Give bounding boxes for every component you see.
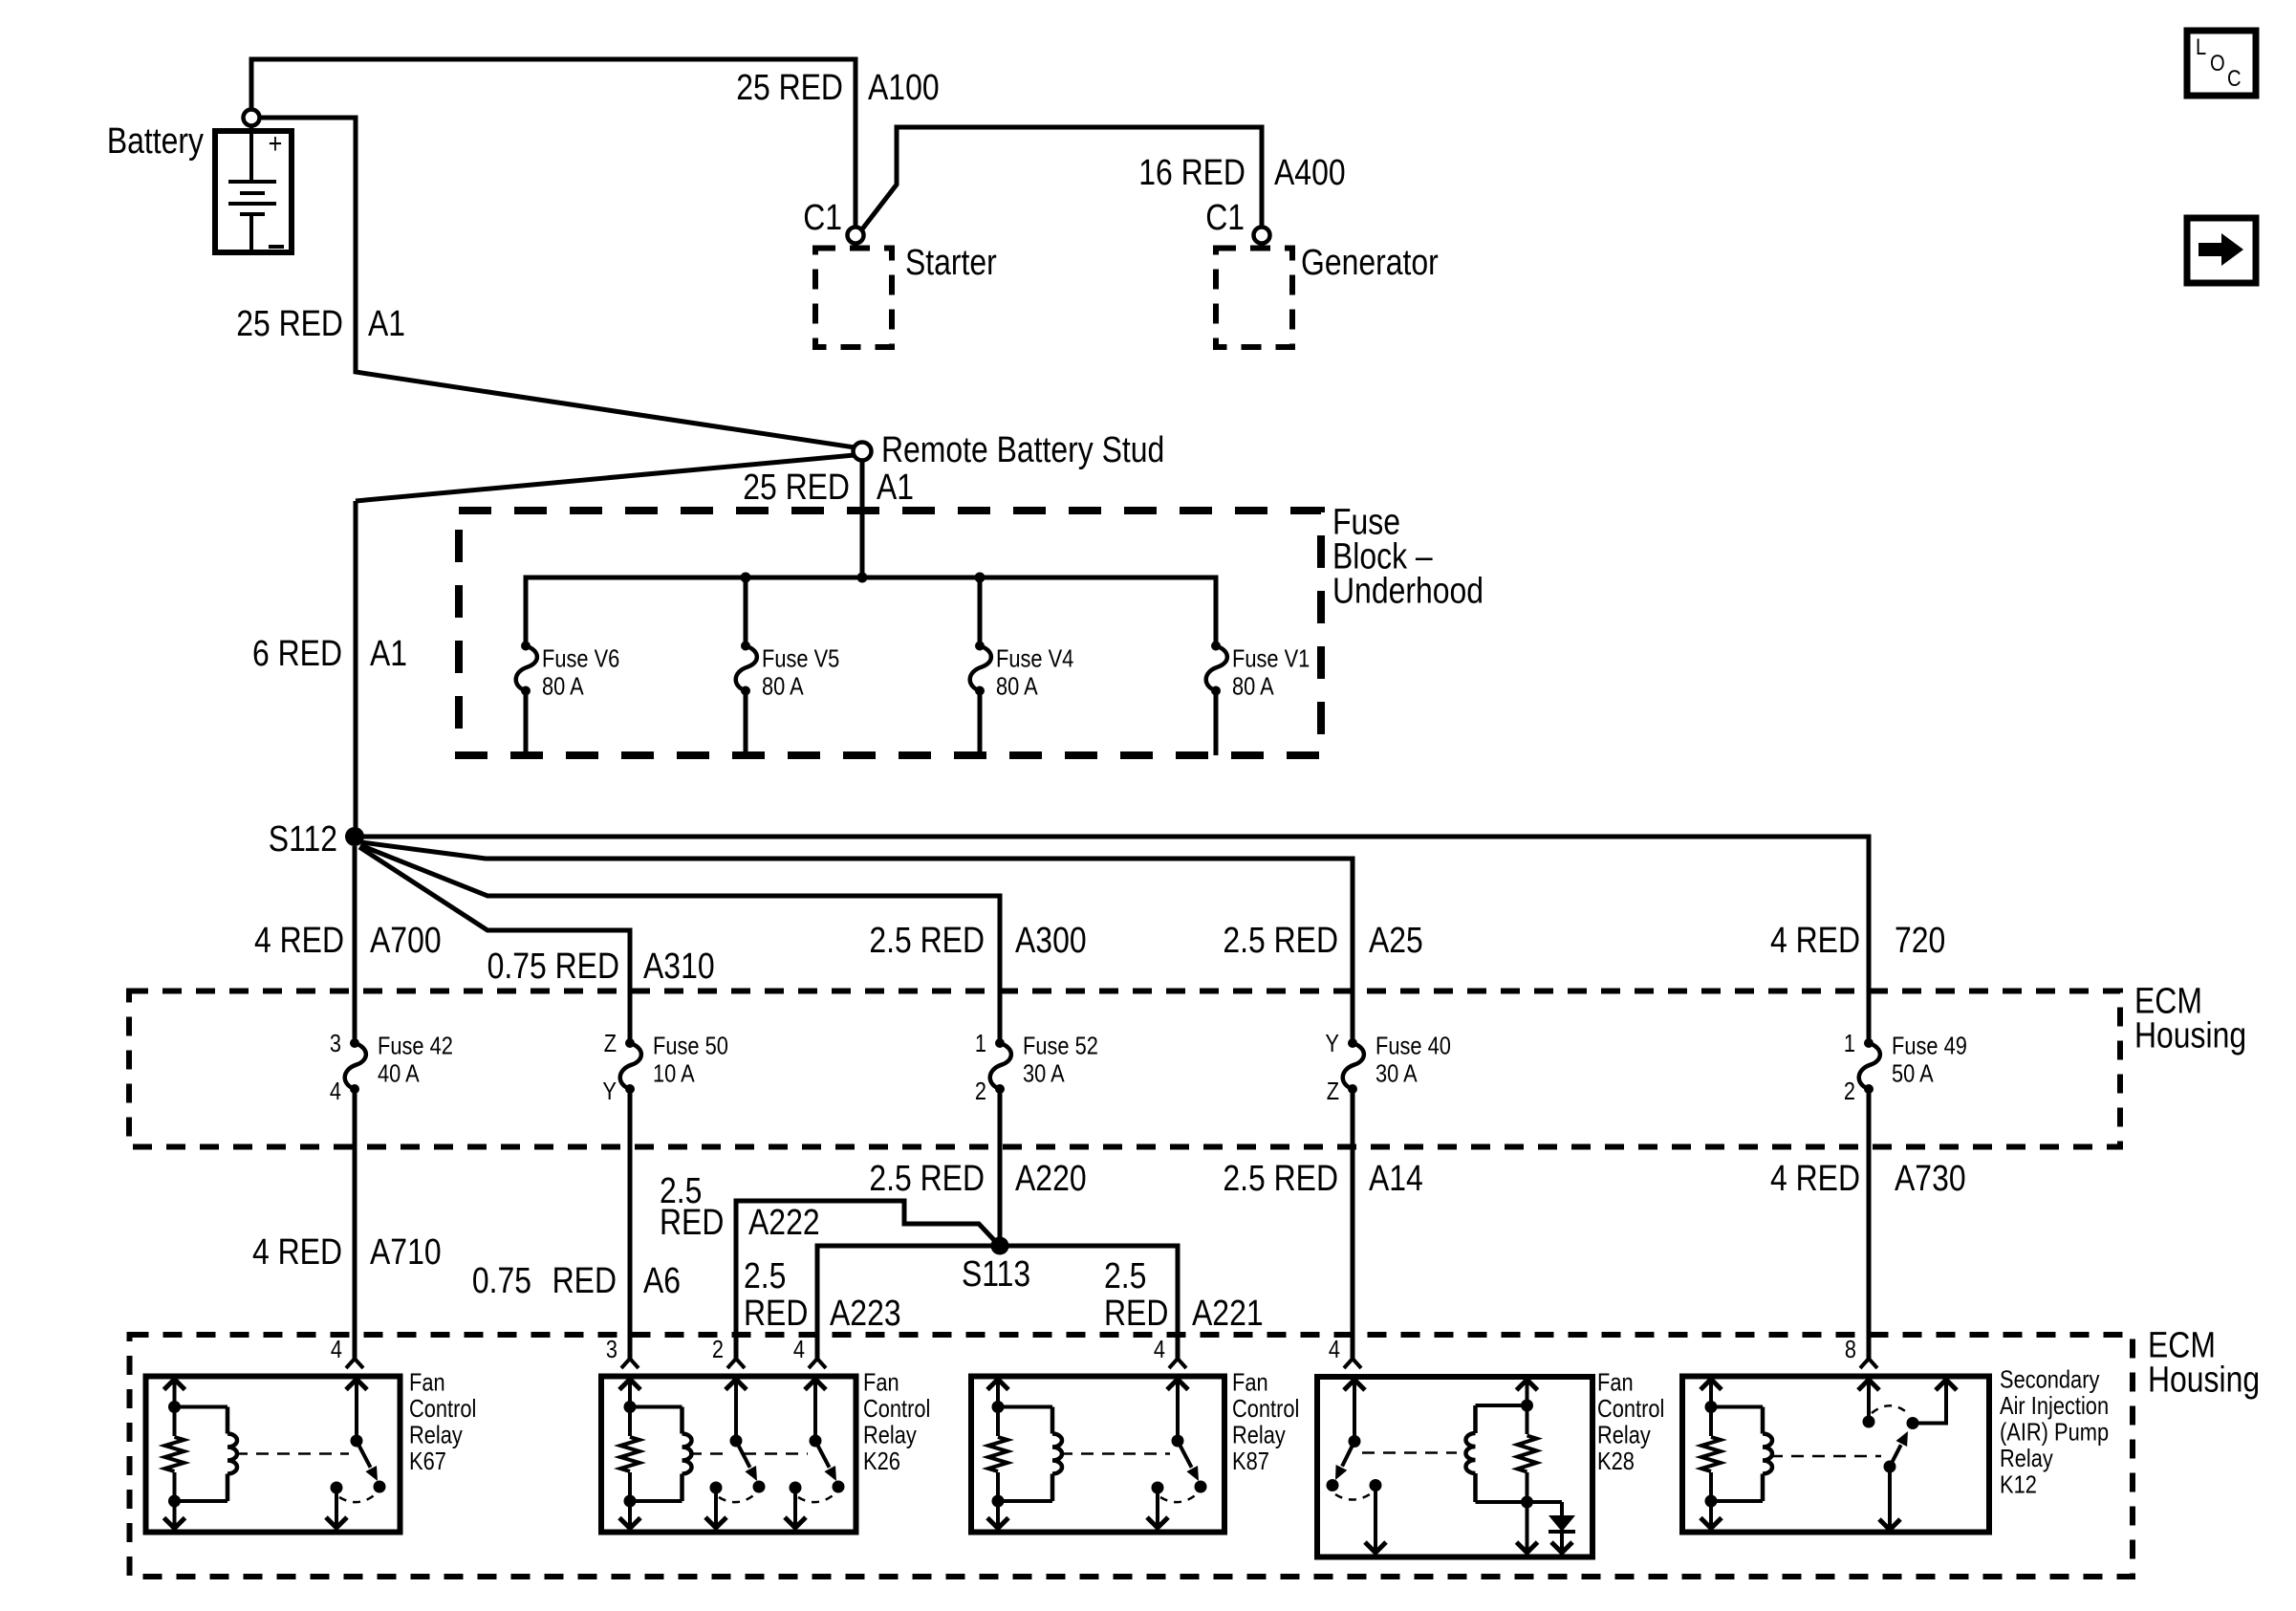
relay K28 coil and resistor (mirrored): [1466, 1377, 1540, 1553]
pin 3 connector: [628, 1318, 632, 1361]
svg-text:2.5 RED: 2.5 RED: [869, 921, 985, 961]
wire 0.75 RED A6 fuse 50 to relay K26: [628, 1089, 633, 1360]
splice S112: [345, 827, 364, 846]
relay K28 switch (mirrored): [1327, 1377, 1387, 1553]
svg-text:A25: A25: [1369, 921, 1423, 961]
svg-text:4: 4: [1154, 1335, 1165, 1363]
svg-text:Air Injection: Air Injection: [2000, 1391, 2109, 1420]
svg-text:A220: A220: [1015, 1159, 1087, 1199]
svg-text:4: 4: [1329, 1335, 1340, 1363]
svg-text:RED: RED: [552, 1261, 617, 1301]
ECM housing lower dashed box: [130, 1335, 2134, 1577]
svg-text:Y: Y: [602, 1077, 617, 1105]
svg-text:2: 2: [1844, 1077, 1855, 1105]
battery positive terminal: [244, 110, 260, 126]
relay K12 switch: [1858, 1377, 1957, 1531]
svg-text:25 RED: 25 RED: [736, 68, 843, 108]
svg-text:L: L: [2196, 34, 2206, 60]
relay K87 switch: [1147, 1377, 1207, 1529]
starter S1 dashed box: [815, 249, 892, 348]
svg-text:10 A: 10 A: [653, 1059, 695, 1088]
svg-text:720: 720: [1895, 921, 1945, 961]
svg-text:4 RED: 4 RED: [254, 921, 344, 961]
relay K67 switch: [326, 1377, 386, 1529]
bus junction dot V4: [975, 573, 986, 583]
svg-text:Control: Control: [1232, 1394, 1299, 1423]
pin 4 connector: [815, 1318, 819, 1361]
LOC icon: [2187, 31, 2256, 96]
fuse block underhood dashed box: [459, 511, 1321, 755]
svg-text:80 A: 80 A: [1232, 672, 1274, 701]
svg-text:Y: Y: [1325, 1029, 1339, 1057]
wire S112 to fuse 40 branch: [361, 842, 1353, 1043]
svg-text:Fuse 50: Fuse 50: [653, 1032, 728, 1060]
wire S112 to fuse 52 branch: [360, 845, 1000, 1043]
Fuse 40 30 A: [1325, 1029, 1451, 1105]
svg-text:4: 4: [793, 1335, 805, 1363]
svg-text:Relay: Relay: [2000, 1444, 2053, 1472]
svg-text:Relay: Relay: [863, 1421, 917, 1449]
starter connector C1 terminal: [848, 228, 864, 244]
wire stud to left trunk: [356, 455, 855, 501]
generator connector C1 terminal: [1254, 228, 1270, 244]
svg-text:4 RED: 4 RED: [1770, 921, 1860, 961]
pin 4 connector: [1351, 1318, 1354, 1361]
svg-text:2.5: 2.5: [744, 1256, 786, 1296]
svg-text:Housing: Housing: [2148, 1360, 2260, 1400]
fuse V4 80 A: [970, 642, 1074, 756]
ECM housing upper dashed box: [129, 991, 2120, 1147]
svg-text:30 A: 30 A: [1023, 1059, 1065, 1088]
svg-text:Remote Battery Stud: Remote Battery Stud: [881, 430, 1164, 470]
wire 25 RED A1 battery to remote battery stud: [260, 118, 855, 447]
wire 25 RED A1 stud to fuse block bus: [860, 460, 865, 577]
battery B1: [215, 125, 292, 252]
svg-text:3: 3: [606, 1335, 617, 1363]
relay K26 switch 1: [705, 1377, 766, 1529]
wire 4 RED A710 fuse 42 to relay K67: [353, 1089, 357, 1360]
svg-text:25 RED: 25 RED: [236, 304, 343, 344]
svg-text:Relay: Relay: [1232, 1421, 1286, 1449]
svg-text:A1: A1: [877, 468, 914, 508]
svg-text:A1: A1: [370, 634, 407, 674]
svg-text:K12: K12: [2000, 1470, 2037, 1499]
svg-text:1: 1: [1844, 1029, 1855, 1057]
fuse V5 80 A: [736, 642, 840, 756]
svg-text:Control: Control: [863, 1394, 930, 1423]
svg-text:Secondary: Secondary: [2000, 1365, 2099, 1394]
svg-text:Fan: Fan: [1597, 1368, 1634, 1397]
svg-text:A14: A14: [1369, 1159, 1423, 1199]
wire 16 RED A400 to generator: [861, 127, 1262, 230]
svg-text:2: 2: [975, 1077, 986, 1105]
svg-text:16 RED: 16 RED: [1138, 153, 1245, 193]
svg-text:8: 8: [1845, 1335, 1856, 1363]
relay K26 control dashed link: [689, 1452, 728, 1455]
remote battery stud terminal: [854, 443, 872, 461]
svg-text:A1: A1: [368, 304, 405, 344]
wire 2.5 RED A221 S113 to relay K87 pin 4: [1000, 1246, 1178, 1360]
wire 2.5 RED A223 S113 to relay K26 pin 4: [817, 1246, 1000, 1360]
svg-text:K67: K67: [409, 1447, 446, 1475]
svg-text:A400: A400: [1274, 153, 1346, 193]
wire S112 to fuse 42 branch: [353, 846, 357, 1043]
svg-text:2.5: 2.5: [1104, 1256, 1146, 1296]
svg-text:Fan: Fan: [1232, 1368, 1268, 1397]
svg-text:C: C: [2227, 66, 2242, 92]
bus junction dot V5: [741, 573, 751, 583]
svg-text:Control: Control: [409, 1394, 476, 1423]
fan control relay K67 box: [146, 1377, 401, 1533]
bus junction dot A1 feed: [857, 573, 868, 583]
wire 4 RED A730 fuse 49 to relay K12: [1867, 1089, 1872, 1360]
fan control relay K87 box: [971, 1377, 1224, 1533]
arrow icon: [2187, 218, 2256, 283]
wire 6 RED A1 trunk to S112: [354, 501, 358, 837]
svg-text:2.5 RED: 2.5 RED: [1223, 921, 1338, 961]
fuse V6 80 A: [516, 642, 620, 756]
wire 25 RED A100 battery to starter: [251, 59, 856, 228]
svg-text:6 RED: 6 RED: [252, 634, 342, 674]
Fuse 52 30 A: [975, 1029, 1098, 1105]
svg-text:2.5 RED: 2.5 RED: [1223, 1159, 1338, 1199]
svg-text:A730: A730: [1895, 1159, 1966, 1199]
svg-text:A310: A310: [643, 947, 715, 987]
generator G1 dashed box: [1216, 249, 1292, 348]
svg-text:C1: C1: [1205, 198, 1245, 238]
relay K87 control dashed link: [1060, 1452, 1170, 1455]
relay K67 coil and resistor: [162, 1377, 238, 1529]
svg-text:K26: K26: [863, 1447, 900, 1475]
wire S112 to fuse 50 branch: [359, 847, 630, 1043]
fan control relay K28 box: [1317, 1377, 1592, 1557]
svg-text:Fuse V6: Fuse V6: [542, 644, 619, 673]
svg-text:S113: S113: [962, 1254, 1030, 1295]
fuse V1 80 A: [1206, 642, 1310, 756]
svg-text:A100: A100: [868, 68, 940, 108]
svg-text:A700: A700: [370, 921, 442, 961]
svg-text:Fuse V1: Fuse V1: [1232, 644, 1310, 673]
wire 2.5 RED A14 fuse 40 to relay K28: [1351, 1089, 1355, 1360]
relay K12 control dashed link: [1770, 1455, 1881, 1458]
svg-text:4: 4: [331, 1335, 342, 1363]
svg-text:4 RED: 4 RED: [1770, 1159, 1860, 1199]
svg-text:Control: Control: [1597, 1394, 1664, 1423]
fan control relay K26 box: [601, 1377, 856, 1533]
svg-text:Fuse V5: Fuse V5: [762, 644, 839, 673]
svg-text:80 A: 80 A: [542, 672, 584, 701]
relay K67 control dashed link: [235, 1452, 349, 1455]
Fuse 42 40 A: [330, 1029, 453, 1105]
relay K26 switch 2: [785, 1377, 845, 1529]
svg-text:80 A: 80 A: [762, 672, 804, 701]
wire 2.5 RED A220 fuse 52 to S113: [998, 1089, 1003, 1246]
secondary air injection pump relay K12 box: [1682, 1377, 1989, 1533]
relay K12 coil and resistor: [1699, 1377, 1772, 1529]
svg-text:30 A: 30 A: [1375, 1059, 1418, 1088]
svg-text:4 RED: 4 RED: [252, 1232, 342, 1273]
svg-text:25 RED: 25 RED: [743, 468, 850, 508]
svg-text:0.75 RED: 0.75 RED: [487, 947, 619, 987]
svg-text:A710: A710: [370, 1232, 442, 1273]
svg-text:RED: RED: [1104, 1294, 1168, 1334]
pin 4 connector: [1176, 1318, 1180, 1361]
svg-text:80 A: 80 A: [996, 672, 1038, 701]
svg-text:Fuse 42: Fuse 42: [378, 1032, 453, 1060]
svg-text:Z: Z: [604, 1029, 617, 1057]
pin 8 connector: [1867, 1318, 1871, 1361]
svg-text:A300: A300: [1015, 921, 1087, 961]
svg-text:Underhood: Underhood: [1332, 571, 1484, 611]
svg-text:Fuse V4: Fuse V4: [996, 644, 1073, 673]
relay K87 coil and resistor: [986, 1377, 1062, 1529]
svg-text:Starter: Starter: [905, 243, 997, 283]
svg-text:Fuse 52: Fuse 52: [1023, 1032, 1098, 1060]
svg-text:40 A: 40 A: [378, 1059, 420, 1088]
pin 2 connector: [734, 1318, 738, 1361]
wire 2.5 RED A222 S113 to relay K26 pin 2: [736, 1201, 994, 1360]
svg-text:+: +: [269, 128, 283, 160]
relay K28 control dashed link: [1362, 1451, 1457, 1454]
svg-text:Relay: Relay: [1597, 1421, 1651, 1449]
svg-text:Housing: Housing: [2134, 1015, 2246, 1056]
svg-text:A222: A222: [748, 1203, 820, 1243]
svg-text:Fuse 40: Fuse 40: [1375, 1032, 1451, 1060]
svg-text:2.5 RED: 2.5 RED: [869, 1159, 985, 1199]
svg-text:Fuse 49: Fuse 49: [1892, 1032, 1967, 1060]
Fuse 50 10 A: [602, 1029, 728, 1105]
svg-text:RED: RED: [744, 1294, 808, 1334]
svg-text:Battery: Battery: [107, 121, 204, 162]
svg-text:(AIR) Pump: (AIR) Pump: [2000, 1418, 2109, 1447]
svg-text:O: O: [2210, 51, 2225, 76]
svg-text:Relay: Relay: [409, 1421, 463, 1449]
svg-text:Generator: Generator: [1301, 243, 1439, 283]
relay K28 diode: [1527, 1502, 1576, 1553]
svg-text:Fan: Fan: [863, 1368, 899, 1397]
fuse block bus wire: [526, 577, 1216, 646]
splice S113: [991, 1237, 1009, 1255]
svg-text:A223: A223: [830, 1294, 901, 1334]
svg-text:C1: C1: [803, 198, 842, 238]
pin 4 connector: [353, 1318, 357, 1361]
svg-text:50 A: 50 A: [1892, 1059, 1934, 1088]
svg-text:1: 1: [975, 1029, 986, 1057]
Fuse 49 50 A: [1844, 1029, 1967, 1105]
svg-text:RED: RED: [660, 1203, 724, 1243]
wire S112 to fuse 49 branch: [355, 837, 1869, 1043]
svg-text:0.75: 0.75: [472, 1261, 531, 1301]
relay K26 coil and resistor: [617, 1377, 692, 1529]
svg-text:S112: S112: [269, 819, 337, 860]
svg-text:2: 2: [712, 1335, 724, 1363]
svg-text:A6: A6: [643, 1261, 681, 1301]
svg-text:3: 3: [330, 1029, 341, 1057]
svg-text:Fan: Fan: [409, 1368, 445, 1397]
svg-text:4: 4: [330, 1077, 341, 1105]
svg-text:K87: K87: [1232, 1447, 1269, 1475]
svg-text:A221: A221: [1192, 1294, 1264, 1334]
svg-text:K28: K28: [1597, 1447, 1635, 1475]
svg-text:Z: Z: [1327, 1077, 1339, 1105]
